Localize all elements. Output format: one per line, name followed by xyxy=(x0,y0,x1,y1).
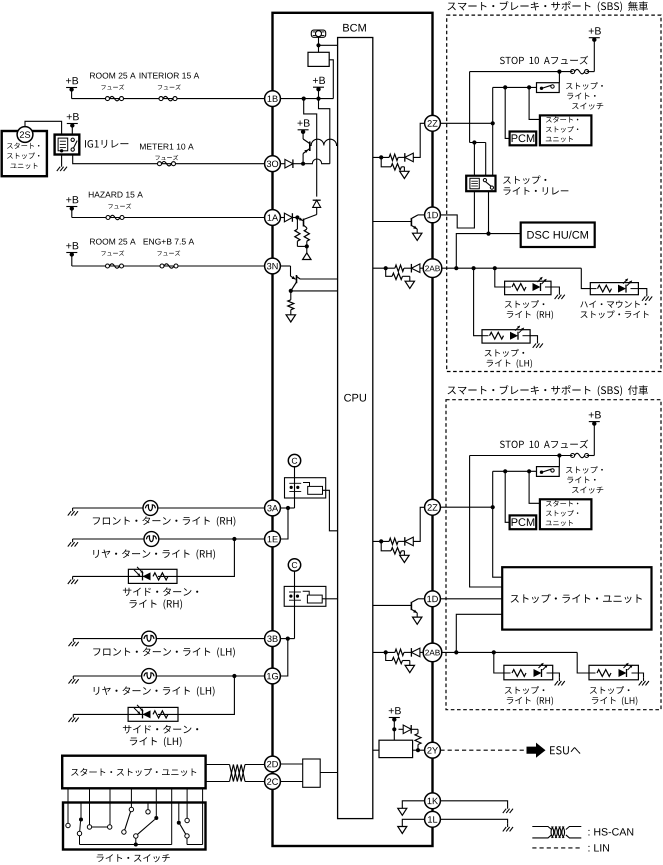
wire STOP fuse row SBS1 xyxy=(470,71,573,73)
high mount stop light box xyxy=(590,283,638,295)
wire down to reference xyxy=(306,246,308,253)
wire 1B to 3O tie xyxy=(319,99,330,164)
connector pin 2D xyxy=(265,756,281,772)
node 2AB c SBS1 xyxy=(493,266,497,270)
start-stop unit box (bottom) xyxy=(62,756,205,789)
light switch contact 8 xyxy=(177,803,203,845)
label stop light relay xyxy=(503,176,568,195)
wire 2Y dashed ESU xyxy=(440,749,524,751)
wire stop RH ground SBS1 xyxy=(551,287,559,292)
node switch row b SBS1 xyxy=(503,85,507,89)
resistor branch row y507.3 xyxy=(391,548,401,554)
node relay feed SBS1 xyxy=(472,140,476,144)
ground triangle 1K xyxy=(398,808,407,815)
wire 3A to 1E link xyxy=(280,508,288,539)
power +B SBS2 xyxy=(589,411,601,455)
label ESU xyxy=(550,746,580,754)
wire relay to DSC xyxy=(489,233,521,235)
wire 2D to CAN box xyxy=(280,763,302,765)
wire 2AB branch y268.2 xyxy=(386,268,410,281)
fuse STOP 10A SBS2 xyxy=(571,453,595,457)
node junction 1G branch xyxy=(232,674,236,678)
wire 1K right xyxy=(440,801,507,806)
wire Q1 base coil line xyxy=(310,139,338,145)
stop light LH box SBS2 xyxy=(589,665,638,680)
wire row 1B xyxy=(72,90,265,99)
crystal oscillator xyxy=(311,30,325,37)
reference triangle 1A xyxy=(303,253,311,260)
ground triangle 1L xyxy=(398,827,407,834)
resistor stop LH SBS2 xyxy=(597,670,611,677)
start-stop unit box (top left) xyxy=(2,131,47,176)
power +B 1B internal xyxy=(313,77,325,99)
fuse METER1 10 A xyxy=(158,162,176,166)
fuse ROOM 25 A (row 1B) xyxy=(106,96,124,100)
lamp rear turn light RH xyxy=(144,532,159,547)
wire Q3 collector to CPU xyxy=(300,278,338,280)
node 2Y +B junction xyxy=(392,727,396,731)
wire row 3N xyxy=(72,255,265,267)
connector pin 2Z (right y=123.3) xyxy=(425,115,441,131)
wire high mount ground xyxy=(638,289,646,294)
LED stop RH SBS2 xyxy=(534,663,548,677)
light switch contact 10 xyxy=(202,803,204,845)
resistor output row y123.3 xyxy=(389,154,398,160)
wire CPU to 2Y box xyxy=(373,749,379,751)
wire 2Z vertical to relay SBS1 xyxy=(492,123,494,175)
power +B SBS1 xyxy=(589,27,601,71)
connector pin 2Y (right y=750.2) xyxy=(425,742,441,758)
ground triangle 3N xyxy=(286,315,295,322)
label stop RH SBS1 xyxy=(505,300,553,319)
relay coil box 2Y xyxy=(379,740,413,757)
connector pin 1K (right y=800.8) xyxy=(425,793,441,809)
wire 3N input xyxy=(280,266,290,276)
resistor stop RH SBS1 xyxy=(512,284,526,291)
wire output row y507.3 xyxy=(373,507,425,541)
wire stop LH ground SBS2 xyxy=(638,673,643,678)
wire 2AB branch y652.4 xyxy=(386,652,410,665)
resistor 2AB branch y268.2 xyxy=(392,273,402,279)
wire stop light unit to 2AB xyxy=(456,614,502,652)
node 2AB b SBS1 xyxy=(472,266,476,270)
connector pin 1L (right y=819.3) xyxy=(425,811,441,827)
resistor R3 (3N) xyxy=(288,291,294,315)
wire IG1 switch to 3O xyxy=(73,155,265,164)
node output row y123.3 xyxy=(379,155,383,159)
wire relay switch out xyxy=(488,191,490,233)
CPU label xyxy=(344,394,366,402)
label rear turn LH xyxy=(94,686,215,696)
wire 2Z to SBS SBS1 xyxy=(440,122,492,124)
CAN transceiver box xyxy=(303,759,321,787)
stop light RH box SBS1 xyxy=(505,281,551,295)
diode D2 vertical (hazard feed) xyxy=(313,200,321,214)
label high mount xyxy=(580,300,648,318)
power +B row 1A xyxy=(66,196,78,211)
fuse ENG+B 7.5 A xyxy=(160,264,178,268)
resistor R1 (1A base) xyxy=(295,218,300,247)
wire 1E to side turn RH xyxy=(177,539,234,576)
wire 3A internal xyxy=(280,507,294,509)
SBS absent dashed box xyxy=(447,15,661,371)
ground 2AB branch y268.2 xyxy=(405,281,414,288)
label STOP fuse SBS2 xyxy=(500,440,588,449)
node 3B junction xyxy=(286,637,290,641)
PCM box SBS1 xyxy=(510,132,537,146)
node switch row b SBS2 xyxy=(503,469,507,473)
wire row 3A xyxy=(73,507,265,509)
wire to high mount SBS1 xyxy=(581,268,590,288)
resistor R2 (1A emitter) xyxy=(304,229,309,246)
resistor side turn LH xyxy=(153,711,168,718)
side turn light RH box xyxy=(128,569,177,583)
PCM text SBS2 xyxy=(512,518,535,526)
SBS equipped dashed box xyxy=(446,400,661,710)
ground branch row y123.3 xyxy=(400,171,409,178)
wire opto C1 to CPU xyxy=(323,490,338,531)
connector pin 3O xyxy=(265,156,281,172)
resistor 2AB branch y652.4 xyxy=(392,657,402,663)
label front turn RH xyxy=(93,516,236,526)
wire 1D collector y598.8 xyxy=(412,599,425,602)
DSC HU/CM box xyxy=(521,223,595,248)
regulator box xyxy=(308,52,329,66)
start-stop unit bottom text xyxy=(71,768,196,776)
wire CAN box to CPU xyxy=(320,772,337,774)
wire IG1 coil to ground xyxy=(61,155,63,164)
SBS equipped title xyxy=(448,385,648,396)
BCM module box xyxy=(273,13,433,846)
LED side turn LH xyxy=(134,705,151,719)
ground branch row y507.3 xyxy=(400,555,409,562)
resistor output row y507.3 xyxy=(389,538,398,544)
light switch contact 1 xyxy=(66,803,70,828)
diode 1A input xyxy=(280,213,297,222)
wire fuse to stoplight switch SBS2 xyxy=(558,456,560,467)
wire 2AB row SBS1 xyxy=(442,267,582,269)
lamp front turn light LH xyxy=(142,631,157,646)
label ENG+B 7.5 A xyxy=(144,239,195,256)
PCM text SBS1 xyxy=(512,134,535,142)
connector pin 2AB (right y=652.4) xyxy=(423,643,442,662)
stop light relay contacts xyxy=(483,179,493,190)
diode 3O input xyxy=(280,159,303,168)
IG1 relay label xyxy=(85,140,128,148)
opto C1 output block xyxy=(303,483,323,495)
arrow ESU xyxy=(527,743,546,758)
resistor stop LH SBS1 xyxy=(490,332,504,339)
node 2Y wire junction xyxy=(416,748,420,752)
wire side turn LH to ground xyxy=(73,713,128,715)
LED high mount xyxy=(618,278,632,292)
connector pin 3A xyxy=(265,500,281,516)
wire 1B down to hazard feed xyxy=(304,99,317,197)
ground front turn LH xyxy=(69,639,79,647)
ground front turn RH xyxy=(68,508,78,516)
IG1 relay coil xyxy=(58,138,68,152)
connector 2S xyxy=(17,127,33,143)
label rear turn RH xyxy=(93,549,215,559)
ground side turn RH xyxy=(68,576,78,584)
wire 1D to stop light unit xyxy=(440,598,502,600)
node switch row a SBS2 xyxy=(527,469,531,473)
opto box C1 xyxy=(285,478,326,498)
label side turn LH xyxy=(123,725,198,747)
wire to stop LH SBS2 xyxy=(577,652,589,673)
node 3O junction xyxy=(301,162,305,166)
stop light relay box xyxy=(466,176,495,192)
ground 1L right xyxy=(503,824,513,832)
wire row 1G xyxy=(73,675,264,677)
diode output row y123.3 xyxy=(405,153,414,162)
stop light switch box SBS1 xyxy=(537,83,560,93)
wire regulator to 1B row xyxy=(329,60,333,99)
node 2AB row y652.4 xyxy=(384,650,388,654)
label ROOM 25 A xyxy=(90,73,136,90)
IG1 relay switch contacts xyxy=(71,138,77,151)
light switch contact 9 xyxy=(185,803,189,823)
wire 1A resistors join xyxy=(297,245,306,247)
transistor Q1 (3O driver) xyxy=(303,139,310,164)
wire 2AB row y268.2 xyxy=(373,267,423,269)
wire 2Z vertical SBS2 xyxy=(493,507,503,577)
node relay out junction xyxy=(486,232,490,236)
label front turn LH xyxy=(93,647,235,657)
label stop light switch SBS2 xyxy=(566,466,603,493)
wire 2AB row SBS2 xyxy=(442,651,577,653)
node STOP fuse junction SBS2 xyxy=(557,453,561,457)
LED stop LH SBS2 xyxy=(619,663,633,677)
ground rear turn RH xyxy=(68,539,78,547)
wire Q3 emitter to CPU xyxy=(291,290,338,292)
ground stop RH SBS1 xyxy=(555,292,565,300)
node 2AB a SBS2 xyxy=(454,650,458,654)
label INTERIOR 15 A xyxy=(140,73,200,90)
wire branch row y123.3 xyxy=(381,157,404,171)
wire 2C to CAN box xyxy=(280,781,302,783)
node 1A bottom junction xyxy=(305,244,309,248)
label ROOM 25 A (row 3N) xyxy=(90,239,136,256)
wire fuse branch down SBS1 xyxy=(469,72,471,143)
light switch contact 7 xyxy=(134,803,159,847)
label stop RH SBS2 xyxy=(505,686,553,705)
label side turn RH xyxy=(123,587,198,609)
node 2Z junction SBS1 xyxy=(491,121,495,125)
transistor 1D y598.8 xyxy=(373,602,417,617)
start-stop unit box SBS2 xyxy=(540,499,592,529)
wire branch row y507.3 xyxy=(381,541,404,555)
opto C2 contact xyxy=(289,592,301,600)
connector C2 xyxy=(288,559,300,571)
wire 1D to relay coil xyxy=(440,191,474,228)
stop light relay coil xyxy=(470,178,479,189)
connector pin 1D (right y=598.8) xyxy=(425,591,441,607)
wires unit to light switch xyxy=(68,788,203,802)
wire 2AB row y652.4 xyxy=(373,651,423,653)
node 3A junction xyxy=(286,506,290,510)
resistor 2AB row y652.4 xyxy=(395,649,404,655)
ground stop RH SBS2 xyxy=(555,678,565,686)
connector pin 3N xyxy=(265,258,281,274)
wire row 1A xyxy=(72,209,265,218)
label stop LH SBS2 xyxy=(590,686,637,705)
wire stop LH ground SBS1 xyxy=(530,336,537,341)
light switch contact 2 xyxy=(77,803,83,845)
wire 1B internal xyxy=(280,98,333,100)
connector pin 1B xyxy=(265,91,281,107)
ground rear turn LH xyxy=(69,676,79,684)
wire to start stop unit SBS1 xyxy=(529,87,540,119)
ground 1D y214.9 xyxy=(413,233,422,240)
wire opto C2 to CPU xyxy=(322,598,337,600)
start-stop unit text SBS2 xyxy=(546,500,579,526)
legend HS-CAN text xyxy=(588,828,633,836)
wire relay out to 2AB xyxy=(456,234,488,269)
node 1B junction a xyxy=(302,97,306,101)
start-stop unit text xyxy=(7,143,39,169)
wire 3B to 1G link xyxy=(280,639,287,676)
PCM box SBS2 xyxy=(510,515,537,529)
LED stop RH SBS1 xyxy=(533,277,547,291)
node 1B junction b xyxy=(316,97,320,101)
resistor 2Y xyxy=(415,734,421,751)
wire switch row down SBS1 xyxy=(492,87,494,123)
ground 1D y598.8 xyxy=(413,617,422,624)
wire to start stop unit SBS2 xyxy=(529,471,540,503)
connector pin 2Z (right y=507.3) xyxy=(425,499,441,515)
label stop light switch SBS1 xyxy=(566,82,603,109)
wire fuse branch down SBS2 xyxy=(470,456,503,588)
node output row y507.3 xyxy=(379,539,383,543)
wire twisted pair 2D/2C xyxy=(206,765,265,782)
BCM label xyxy=(343,24,366,32)
stop light switch box SBS2 xyxy=(537,467,560,477)
wire C2 down to 3B row xyxy=(294,571,296,639)
node STOP fuse junction SBS1 xyxy=(557,70,561,74)
resistor side turn RH xyxy=(153,573,168,580)
wire 1L right xyxy=(440,819,507,824)
wire row 1E xyxy=(73,538,265,540)
power +B row 1B xyxy=(66,77,78,92)
node 2Z junction SBS2 xyxy=(491,505,495,509)
legend LIN symbol xyxy=(532,847,581,849)
wire 3B internal xyxy=(280,638,294,640)
legend HS-CAN symbol xyxy=(532,827,581,838)
resistor branch row y123.3 xyxy=(391,164,401,170)
resistor stop RH SBS2 xyxy=(512,670,526,677)
SBS absent title xyxy=(448,1,648,12)
light switch contact 4 xyxy=(108,803,112,830)
ground 1K right xyxy=(503,806,513,814)
light switch bus wire xyxy=(80,803,172,845)
light switch contact 5 xyxy=(122,803,134,835)
fuse ROOM 25 A (row 3N) xyxy=(106,264,124,268)
lamp front turn light RH xyxy=(143,501,158,516)
opto C1 contact xyxy=(289,483,301,491)
diode 2AB row y268.2 xyxy=(411,264,420,273)
opto box C2 xyxy=(284,586,326,606)
wire fuse to stoplight switch SBS1 xyxy=(558,72,560,83)
power +B PNP xyxy=(298,119,310,139)
label light switch xyxy=(97,854,170,862)
node Q3 emitter junction xyxy=(289,289,293,293)
lamp rear turn light LH xyxy=(142,669,157,684)
side turn light LH box xyxy=(128,707,178,721)
transistor Q2 (hazard) xyxy=(297,215,316,230)
wire side turn RH to ground xyxy=(73,575,129,577)
wire crystal to CPU xyxy=(319,37,338,52)
legend LIN text xyxy=(588,844,609,851)
ground high mount xyxy=(642,293,652,301)
fuse STOP 10A SBS1 xyxy=(571,69,595,73)
wire output row y123.3 xyxy=(373,123,425,157)
DSC HU/CM text xyxy=(527,231,588,239)
wire 2Y box to pin xyxy=(413,749,425,751)
ground stop LH SBS1 xyxy=(533,340,543,348)
power +B 2Y xyxy=(389,707,401,740)
start-stop unit box SBS1 xyxy=(540,115,592,145)
stop light RH box SBS2 xyxy=(504,665,553,680)
wire 1D collector y214.9 xyxy=(412,215,425,218)
opto C2 output block xyxy=(303,591,322,603)
connector pin 1D (right y=214.9) xyxy=(425,207,441,223)
connector pin 3B xyxy=(265,631,281,647)
resistor high mount xyxy=(598,285,612,292)
diode output row y507.3 xyxy=(405,537,414,546)
diode 2AB row y652.4 xyxy=(411,648,420,657)
wire 2S to IG1 relay xyxy=(25,121,62,134)
transistor 1D y214.9 xyxy=(373,218,417,233)
power +B IG1 relay xyxy=(67,113,79,135)
node switch row a SBS1 xyxy=(527,85,531,89)
stop light switch contacts SBS2 xyxy=(540,469,554,474)
node 2AB row y268.2 xyxy=(384,266,388,270)
node junction 1E branch xyxy=(232,537,236,541)
transistor Q3 (3N input) xyxy=(291,275,301,291)
node crystal junction xyxy=(316,43,320,47)
wire switch row SBS2 xyxy=(493,470,537,472)
LED side turn RH xyxy=(134,567,151,581)
ground 2AB branch y652.4 xyxy=(405,665,414,672)
wire row 3B xyxy=(73,638,264,640)
label HAZARD 15 A xyxy=(89,192,143,209)
node 1A junction xyxy=(295,215,299,219)
IG1 relay box xyxy=(55,135,80,155)
connector pin 1E xyxy=(265,531,281,547)
wire C1 down to 3A row xyxy=(294,467,296,508)
label stop LH SBS1 xyxy=(485,349,532,368)
diode 2Y xyxy=(399,725,419,734)
ground IG1 relay xyxy=(57,164,67,172)
label STOP fuse SBS1 xyxy=(500,56,588,65)
power +B row 3N xyxy=(66,242,78,257)
ground stop LH SBS2 xyxy=(639,678,649,686)
connector pin 2AB (right y=268.2) xyxy=(423,259,442,278)
CPU box xyxy=(338,38,373,819)
fuse INTERIOR 15 A (row 1B) xyxy=(159,96,177,100)
wire switch row SBS1 xyxy=(493,86,537,88)
wire relay top feeds SBS1 xyxy=(470,143,486,176)
wire 2Z to SBS SBS2 xyxy=(440,506,492,508)
wire 3O hump to tie xyxy=(303,159,330,164)
wire 1L left xyxy=(402,819,424,826)
wire to PCM SBS2 xyxy=(505,471,509,522)
label METER1 10 A xyxy=(140,144,194,161)
connector pin 1G xyxy=(265,668,281,684)
wire 1G to side turn LH xyxy=(178,676,234,714)
start-stop unit text SBS1 xyxy=(546,116,579,142)
